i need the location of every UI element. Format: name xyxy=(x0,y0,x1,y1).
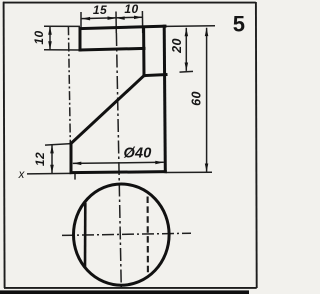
svg-text:20: 20 xyxy=(170,38,184,54)
svg-text:12: 12 xyxy=(33,152,47,166)
svg-text:60: 60 xyxy=(189,91,203,106)
svg-text:15: 15 xyxy=(93,3,107,17)
svg-text:Ø40: Ø40 xyxy=(123,146,151,162)
svg-text:5: 5 xyxy=(233,12,245,37)
svg-text:10: 10 xyxy=(124,2,138,16)
svg-text:10: 10 xyxy=(32,30,46,44)
